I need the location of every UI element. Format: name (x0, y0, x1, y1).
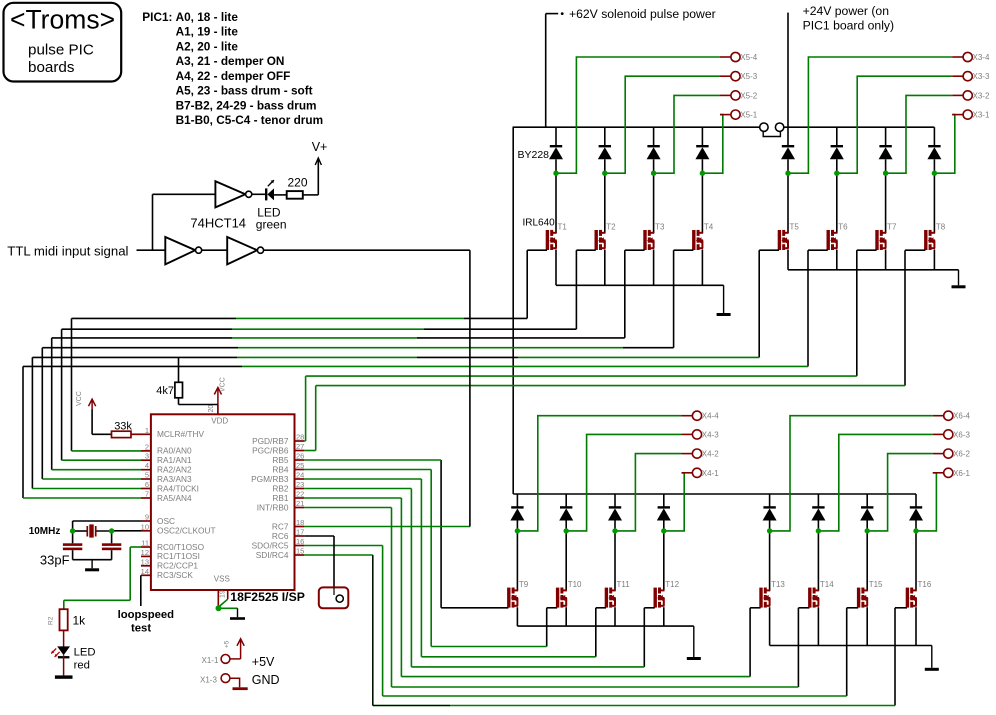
svg-text:PIC1:: PIC1: (142, 10, 172, 24)
svg-text:14: 14 (141, 567, 149, 576)
svg-text:OSC: OSC (157, 516, 175, 526)
svg-text:X3-2: X3-2 (973, 91, 990, 100)
svg-text:X5-1: X5-1 (740, 111, 757, 120)
svg-text:RC7: RC7 (272, 521, 289, 531)
svg-text:+5V: +5V (252, 655, 275, 669)
svg-text:22: 22 (296, 490, 304, 499)
svg-text:A4, 22 - demper OFF: A4, 22 - demper OFF (176, 69, 291, 83)
svg-text:RA4/T0CKI: RA4/T0CKI (157, 483, 199, 493)
svg-text:RB1: RB1 (272, 493, 289, 503)
svg-text:T16: T16 (918, 580, 932, 589)
svg-text:X4-4: X4-4 (702, 412, 719, 421)
svg-text:A1, 19 - lite: A1, 19 - lite (176, 25, 239, 39)
svg-text:RA3/AN3: RA3/AN3 (157, 474, 192, 484)
svg-text:RB5: RB5 (272, 455, 289, 465)
svg-text:RA1/AN1: RA1/AN1 (157, 455, 192, 465)
svg-text:VCC: VCC (220, 377, 227, 392)
svg-text:LED: LED (74, 646, 96, 658)
svg-text:PGD/RB7: PGD/RB7 (252, 436, 289, 446)
svg-text:20: 20 (208, 405, 215, 413)
svg-text:11: 11 (141, 539, 149, 548)
svg-text:74HCT14: 74HCT14 (190, 216, 246, 231)
svg-text:A3, 21 - demper ON: A3, 21 - demper ON (176, 54, 285, 68)
svg-text:X4-1: X4-1 (702, 469, 719, 478)
svg-text:12: 12 (141, 548, 149, 557)
svg-text:SDI/RC4: SDI/RC4 (256, 550, 289, 560)
svg-text:R2: R2 (48, 616, 55, 625)
svg-text:IRL640: IRL640 (523, 217, 556, 228)
svg-text:X6-2: X6-2 (953, 450, 970, 459)
svg-text:VCC: VCC (76, 391, 83, 406)
svg-text:SDO/RC5: SDO/RC5 (252, 540, 289, 550)
svg-text:21: 21 (296, 499, 304, 508)
svg-text:+5: +5 (223, 640, 230, 648)
svg-text:23: 23 (296, 480, 304, 489)
svg-text:T14: T14 (820, 580, 834, 589)
svg-text:T4: T4 (704, 222, 714, 231)
svg-text:24: 24 (296, 471, 304, 480)
svg-text:RC2/CCP1: RC2/CCP1 (157, 561, 198, 571)
svg-text:PGM/RB3: PGM/RB3 (251, 474, 289, 484)
svg-text:X6-4: X6-4 (953, 412, 970, 421)
svg-text:X4-2: X4-2 (702, 450, 719, 459)
svg-text:RA5/AN4: RA5/AN4 (157, 493, 192, 503)
svg-text:RB4: RB4 (272, 464, 289, 474)
svg-text:T3: T3 (655, 222, 665, 231)
svg-text:<Troms>: <Troms> (10, 5, 115, 35)
svg-text:green: green (256, 218, 287, 232)
svg-text:5: 5 (145, 471, 149, 480)
svg-text:T12: T12 (665, 580, 679, 589)
svg-text:X5-3: X5-3 (740, 72, 757, 81)
svg-text:A2, 20 - lite: A2, 20 - lite (176, 39, 239, 53)
svg-text:T1: T1 (558, 222, 568, 231)
svg-text:+24V power (on: +24V power (on (803, 4, 889, 18)
svg-text:19: 19 (220, 590, 227, 598)
svg-text:26: 26 (296, 452, 304, 461)
svg-text:B7-B2, 24-29 - bass drum: B7-B2, 24-29 - bass drum (176, 98, 317, 112)
svg-text:10: 10 (141, 522, 149, 531)
svg-text:X5-2: X5-2 (740, 91, 757, 100)
svg-text:28: 28 (296, 433, 304, 442)
svg-text:220: 220 (288, 176, 308, 190)
svg-text:4k7: 4k7 (156, 385, 174, 397)
svg-text:X1-3: X1-3 (200, 676, 217, 685)
svg-text:TTL midi input signal: TTL midi input signal (7, 244, 128, 259)
svg-text:18F2525 I/SP: 18F2525 I/SP (230, 590, 305, 604)
svg-text:T10: T10 (568, 580, 582, 589)
svg-text:A0, 18 - lite: A0, 18 - lite (176, 10, 239, 24)
svg-text:T15: T15 (869, 580, 883, 589)
svg-text:VSS: VSS (214, 575, 230, 584)
svg-text:4: 4 (145, 461, 149, 470)
svg-text:7: 7 (145, 490, 149, 499)
svg-text:10MHz: 10MHz (29, 526, 61, 537)
svg-text:15: 15 (296, 547, 304, 556)
svg-text:A5, 23 - bass drum - soft: A5, 23 - bass drum - soft (176, 84, 313, 98)
svg-text:16: 16 (296, 537, 304, 546)
svg-text:33pF: 33pF (40, 552, 70, 567)
svg-text:+62V solenoid pulse power: +62V solenoid pulse power (569, 7, 716, 21)
svg-text:18: 18 (296, 518, 304, 527)
svg-text:PGC/RB6: PGC/RB6 (252, 445, 289, 455)
svg-text:boards: boards (28, 59, 75, 76)
svg-text:13: 13 (141, 557, 149, 566)
svg-text:T8: T8 (936, 222, 946, 231)
svg-text:25: 25 (296, 461, 304, 470)
svg-text:X3-3: X3-3 (973, 72, 990, 81)
svg-text:X6-3: X6-3 (953, 430, 970, 439)
svg-text:9: 9 (145, 513, 149, 522)
svg-text:pulse PIC: pulse PIC (28, 42, 94, 59)
svg-text:GND: GND (252, 673, 280, 687)
svg-text:B1-B0, C5-C4 - tenor drum: B1-B0, C5-C4 - tenor drum (176, 113, 323, 127)
svg-text:INT/RB0: INT/RB0 (257, 502, 289, 512)
svg-text:17: 17 (296, 528, 304, 537)
svg-text:1: 1 (145, 426, 149, 435)
svg-text:RC3/SCK: RC3/SCK (157, 570, 193, 580)
svg-text:T5: T5 (790, 222, 800, 231)
svg-text:PIC1 board only): PIC1 board only) (803, 19, 894, 33)
svg-text:X5-4: X5-4 (740, 53, 757, 62)
svg-text:MCLR#/THV: MCLR#/THV (157, 429, 204, 439)
svg-text:BY228: BY228 (518, 149, 550, 161)
svg-text:X1-1: X1-1 (202, 656, 219, 665)
svg-text:X3-4: X3-4 (973, 53, 990, 62)
svg-text:3: 3 (145, 452, 149, 461)
svg-text:2: 2 (145, 442, 149, 451)
svg-text:X6-1: X6-1 (953, 469, 970, 478)
svg-text:T9: T9 (519, 580, 529, 589)
svg-text:6: 6 (145, 480, 149, 489)
svg-text:X4-3: X4-3 (702, 430, 719, 439)
svg-text:red: red (74, 659, 90, 671)
svg-text:T2: T2 (606, 222, 616, 231)
svg-text:VDD: VDD (211, 417, 228, 426)
svg-text:27: 27 (296, 442, 304, 451)
svg-text:OSC2/CLKOUT: OSC2/CLKOUT (157, 526, 216, 536)
svg-text:RB2: RB2 (272, 483, 289, 493)
svg-text:T11: T11 (617, 580, 631, 589)
svg-text:RC6: RC6 (272, 531, 289, 541)
svg-text:T6: T6 (838, 222, 848, 231)
svg-text:X3-1: X3-1 (973, 111, 990, 120)
svg-text:V+: V+ (312, 140, 328, 154)
svg-text:loopspeed: loopspeed (118, 609, 175, 621)
svg-text:test: test (131, 623, 151, 635)
svg-text:T7: T7 (887, 222, 897, 231)
svg-text:T13: T13 (771, 580, 785, 589)
svg-text:1k: 1k (73, 614, 87, 628)
